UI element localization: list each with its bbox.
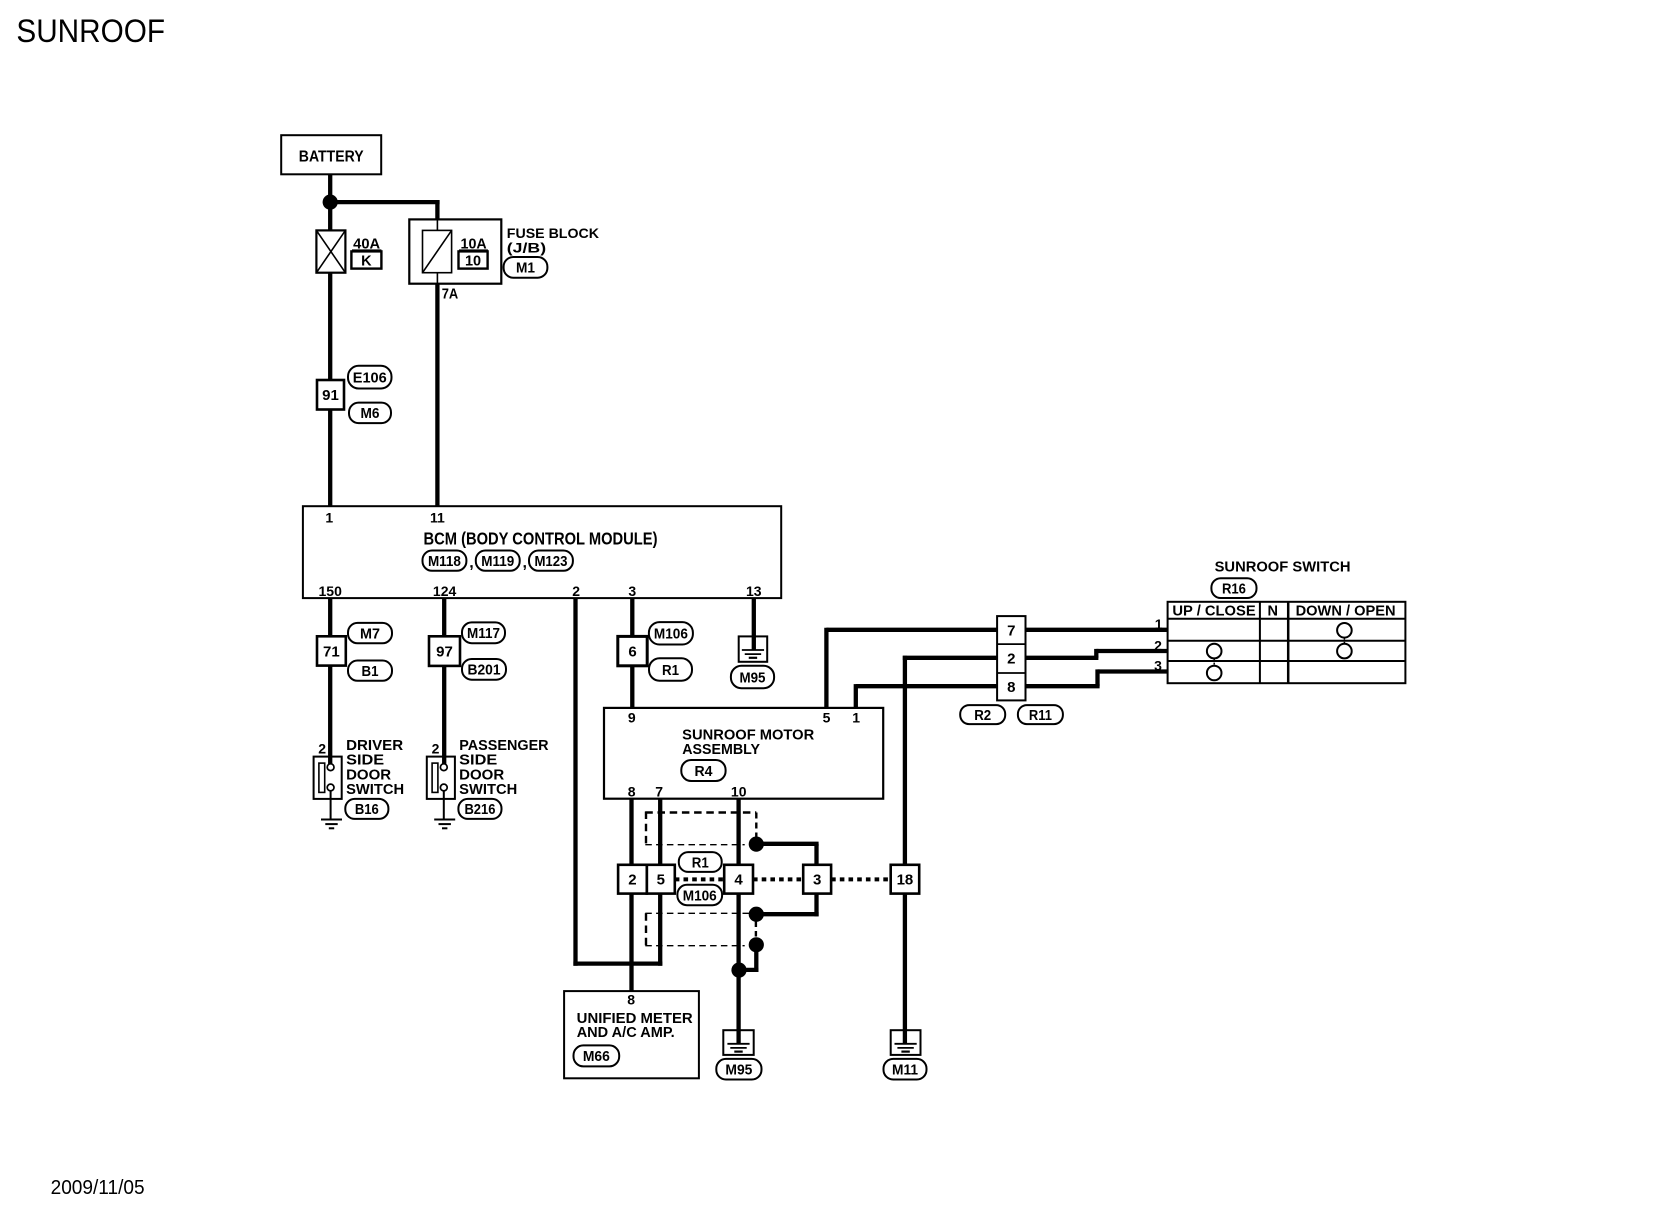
svg-text:8: 8 <box>627 992 635 1008</box>
svg-text:M119: M119 <box>481 553 514 570</box>
svg-text:2: 2 <box>1007 650 1015 667</box>
svg-text:71: 71 <box>323 643 340 660</box>
svg-text:PASSENGER: PASSENGER <box>459 738 549 754</box>
svg-text:7A: 7A <box>442 286 459 302</box>
svg-text:1: 1 <box>852 710 860 726</box>
svg-text:2009/11/05: 2009/11/05 <box>51 1177 145 1199</box>
svg-text:M7: M7 <box>360 625 380 642</box>
svg-text:BATTERY: BATTERY <box>299 148 364 165</box>
svg-text:K: K <box>361 253 372 269</box>
svg-text:M1: M1 <box>516 260 535 277</box>
svg-text:2: 2 <box>572 583 580 599</box>
svg-text:7: 7 <box>655 784 663 800</box>
svg-text:8: 8 <box>1007 679 1015 696</box>
svg-text:8: 8 <box>628 784 636 800</box>
svg-text:ASSEMBLY: ASSEMBLY <box>682 742 760 758</box>
svg-text:R16: R16 <box>1222 580 1246 597</box>
svg-text:2: 2 <box>1154 637 1162 653</box>
svg-text:5: 5 <box>657 872 665 889</box>
svg-text:UP / CLOSE: UP / CLOSE <box>1172 603 1256 619</box>
svg-text:R1: R1 <box>662 662 679 679</box>
svg-text:B1: B1 <box>362 663 379 680</box>
svg-text:M66: M66 <box>583 1048 610 1065</box>
svg-text:150: 150 <box>319 583 343 599</box>
svg-text:1: 1 <box>1155 616 1163 632</box>
svg-text:6: 6 <box>628 644 636 661</box>
svg-text:DRIVER: DRIVER <box>346 738 404 754</box>
svg-text:B16: B16 <box>355 801 379 818</box>
svg-text:M117: M117 <box>467 625 500 642</box>
svg-text:M6: M6 <box>361 405 380 422</box>
svg-text:AND A/C AMP.: AND A/C AMP. <box>577 1025 675 1041</box>
svg-text:M11: M11 <box>892 1062 918 1079</box>
svg-text:97: 97 <box>436 644 453 661</box>
svg-text:R4: R4 <box>694 763 713 780</box>
svg-text:2: 2 <box>318 740 326 756</box>
svg-text:M95: M95 <box>740 669 766 686</box>
svg-text:M95: M95 <box>725 1062 752 1079</box>
svg-text:3: 3 <box>628 583 636 599</box>
svg-text:18: 18 <box>897 872 914 889</box>
svg-text:,: , <box>523 555 527 572</box>
svg-text:7: 7 <box>1007 622 1015 639</box>
svg-text:4: 4 <box>734 872 743 889</box>
svg-text:SIDE: SIDE <box>346 753 384 769</box>
svg-text:DOWN / OPEN: DOWN / OPEN <box>1296 603 1396 619</box>
svg-text:13: 13 <box>746 583 762 599</box>
svg-text:124: 124 <box>433 583 457 599</box>
svg-text:,: , <box>469 555 473 572</box>
svg-text:B216: B216 <box>464 801 495 818</box>
svg-text:5: 5 <box>823 710 831 726</box>
svg-text:(J/B): (J/B) <box>507 239 546 255</box>
svg-text:BCM (BODY CONTROL MODULE): BCM (BODY CONTROL MODULE) <box>424 528 658 548</box>
svg-text:M118: M118 <box>428 553 461 570</box>
svg-text:M106: M106 <box>683 887 717 904</box>
svg-text:R11: R11 <box>1029 707 1052 724</box>
svg-text:3: 3 <box>1154 658 1162 674</box>
svg-text:M123: M123 <box>534 553 567 570</box>
svg-text:1: 1 <box>325 510 333 526</box>
svg-text:M106: M106 <box>654 626 688 643</box>
svg-text:DOOR: DOOR <box>459 767 505 783</box>
svg-text:R1: R1 <box>692 854 709 871</box>
svg-text:9: 9 <box>628 710 636 726</box>
svg-text:10: 10 <box>465 253 481 269</box>
svg-text:10: 10 <box>731 784 747 800</box>
svg-text:B201: B201 <box>468 662 501 679</box>
svg-text:N: N <box>1268 603 1278 619</box>
svg-text:11: 11 <box>430 510 445 526</box>
svg-text:SWITCH: SWITCH <box>346 782 404 798</box>
svg-text:SUNROOF SWITCH: SUNROOF SWITCH <box>1215 559 1351 575</box>
svg-text:91: 91 <box>322 387 339 404</box>
svg-text:2: 2 <box>628 872 636 889</box>
svg-text:SWITCH: SWITCH <box>459 782 517 798</box>
svg-text:2: 2 <box>432 740 440 756</box>
svg-text:R2: R2 <box>974 707 991 724</box>
svg-text:E106: E106 <box>353 369 387 386</box>
svg-text:3: 3 <box>813 872 821 889</box>
svg-text:DOOR: DOOR <box>346 767 392 783</box>
svg-text:SUNROOF: SUNROOF <box>16 13 165 49</box>
svg-text:SIDE: SIDE <box>459 753 497 769</box>
